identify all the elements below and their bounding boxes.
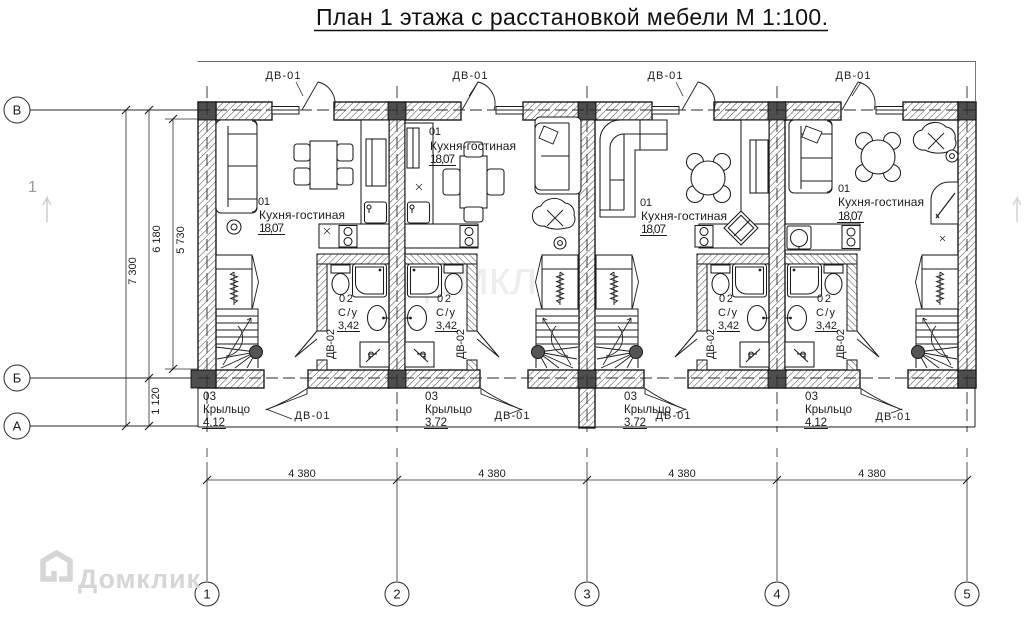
svg-text:03: 03 <box>425 391 438 403</box>
column grid5/Б <box>958 370 976 388</box>
ticks on axis Б <box>145 374 153 382</box>
grid 5 dashed centre line <box>966 86 968 432</box>
top wall unit2 segment b <box>523 102 579 120</box>
ticks on 4380 row <box>203 476 971 484</box>
door unit1 leader <box>266 409 292 419</box>
dim line 7300 <box>125 110 127 426</box>
svg-text:ДВ-01: ДВ-01 <box>648 70 683 82</box>
svg-text:3,42: 3,42 <box>436 320 457 332</box>
unit2 counter x-mark <box>416 184 422 190</box>
porch right edge <box>974 388 976 427</box>
door unit4 leader <box>891 409 902 413</box>
unit4 sofa <box>789 120 832 193</box>
door unit2 top: leaf and swing arc <box>462 82 495 110</box>
svg-text:1: 1 <box>203 587 210 602</box>
column grid4/В <box>768 102 786 120</box>
grid stems to bubbles <box>206 462 208 581</box>
window unit4 <box>876 107 903 115</box>
unit4 armchair side table <box>946 150 958 162</box>
unit4 armchair <box>913 122 956 153</box>
unit1 fridge <box>366 139 386 186</box>
column grid1/Б <box>191 370 216 388</box>
extension line bottom 5730 <box>165 368 198 370</box>
svg-text:5: 5 <box>963 587 970 602</box>
column grid3/В <box>578 102 596 120</box>
svg-text:1: 1 <box>28 179 37 196</box>
bottom wall unit3 segment a <box>595 370 644 388</box>
unit4 standing mirror <box>931 182 958 224</box>
unit2 chairs <box>464 142 483 157</box>
top wall unit2 segment a <box>405 102 461 120</box>
svg-text:02: 02 <box>719 293 733 305</box>
svg-text:03: 03 <box>203 391 216 403</box>
svg-text:ДВ-01: ДВ-01 <box>295 410 330 422</box>
unit1 kitchen base counter <box>319 224 389 248</box>
svg-text:4 380: 4 380 <box>288 468 316 480</box>
svg-text:3,72: 3,72 <box>624 417 646 429</box>
svg-text:3,42: 3,42 <box>816 320 837 332</box>
window unit2 <box>496 107 523 115</box>
svg-text:А: А <box>13 419 22 434</box>
unit2 fridge <box>407 128 419 168</box>
dim line 4380 row <box>207 479 967 481</box>
column grid5/В <box>958 102 976 120</box>
unit1 dining table <box>310 141 337 189</box>
bottom wall unit4 segment a <box>785 370 860 388</box>
svg-text:7 300: 7 300 <box>127 257 139 285</box>
svg-text:4,12: 4,12 <box>203 417 225 429</box>
door unit3 leader <box>676 409 686 413</box>
svg-text:01: 01 <box>640 197 652 209</box>
porch front edge <box>198 426 975 428</box>
unit4 round table <box>856 133 873 150</box>
unit 2 core (mirrored) <box>405 254 578 370</box>
porch left edge <box>197 388 199 427</box>
svg-text:4 380: 4 380 <box>668 468 696 480</box>
bottom wall unit4 segment b <box>908 370 958 388</box>
axis А leader line <box>30 425 198 427</box>
svg-text:Кухня-гостиная: Кухня-гостиная <box>641 209 727 223</box>
party wall grid 3 <box>579 102 595 388</box>
unit2 armchair <box>532 198 575 229</box>
door unit4 bottom leaf <box>861 389 903 411</box>
title underline <box>314 30 828 32</box>
svg-text:С/у: С/у <box>436 307 456 319</box>
unit1 kitchen sink <box>365 202 387 223</box>
svg-text:С/у: С/у <box>816 307 836 319</box>
unit4 small x-mark <box>940 236 945 241</box>
axis bubble 5 <box>955 582 979 606</box>
party wall grid 2 <box>389 102 405 388</box>
svg-text:01: 01 <box>258 196 270 208</box>
svg-text:18,07: 18,07 <box>430 152 455 166</box>
unit1 side table double circle <box>227 220 241 234</box>
column grid1/В <box>198 102 216 120</box>
grid short dashes above dim row <box>207 448 967 457</box>
svg-text:3,42: 3,42 <box>338 320 359 332</box>
svg-text:02: 02 <box>339 293 353 305</box>
svg-text:ДВ-02: ДВ-02 <box>325 329 337 359</box>
unit2 armchair side table <box>554 237 566 249</box>
top wall unit4 segment a <box>785 102 841 120</box>
porch party wall at grid 3 <box>579 388 595 428</box>
svg-text:1 120: 1 120 <box>150 387 162 415</box>
top wall unit1 segment a <box>216 102 272 120</box>
svg-text:ДВ-02: ДВ-02 <box>835 329 847 359</box>
column grid4/Б <box>768 370 786 388</box>
svg-text:4 380: 4 380 <box>858 468 886 480</box>
unit1 sofa <box>216 120 257 213</box>
svg-text:ДВ-01: ДВ-01 <box>495 410 530 422</box>
svg-text:С/у: С/у <box>718 307 738 319</box>
axis bubble 3 <box>575 582 599 606</box>
unit1 kitchen tall counter <box>361 120 389 224</box>
bottom wall unit2 segment a <box>405 370 480 388</box>
unit 4 core (mirrored) <box>785 254 958 370</box>
extension line top 5730 <box>165 118 198 120</box>
door unit1 top: leaf and swing arc <box>302 82 335 110</box>
svg-text:В: В <box>13 103 22 118</box>
bottom wall unit3 segment b <box>688 370 769 388</box>
grid 3 dashed centre line <box>586 86 588 432</box>
svg-text:Кухня-гостиная: Кухня-гостиная <box>430 139 516 153</box>
svg-text:3,72: 3,72 <box>425 417 447 429</box>
axis bubble А <box>4 413 30 439</box>
axis bubble 2 <box>385 582 409 606</box>
svg-text:03: 03 <box>805 391 818 403</box>
door unit4 top: leaf and swing arc <box>842 82 875 110</box>
unit3 corner sink tap line <box>734 220 750 236</box>
svg-text:ДВ-02: ДВ-02 <box>705 329 717 359</box>
unit4 kitchen base counter <box>785 224 860 250</box>
axis В dashed centre line <box>198 109 976 111</box>
svg-text:3,42: 3,42 <box>718 320 739 332</box>
svg-text:Крыльцо: Крыльцо <box>805 404 852 416</box>
unit 3 core <box>596 254 769 370</box>
watermark house icon <box>43 553 70 579</box>
unit3 corner sink rotated <box>724 211 758 245</box>
svg-text:03: 03 <box>624 391 637 403</box>
left exterior wall <box>198 102 216 388</box>
window unit3 <box>652 107 679 115</box>
unit2 sofa <box>535 117 581 194</box>
column grid2/Б <box>388 370 406 388</box>
svg-text:ДВ-01: ДВ-01 <box>453 70 488 82</box>
window unit1 <box>272 107 299 115</box>
top wall unit3 segment a <box>595 102 652 120</box>
svg-text:18,07: 18,07 <box>838 209 863 223</box>
right exterior wall <box>958 102 976 388</box>
faint right arrow mark <box>1013 198 1021 222</box>
svg-text:2: 2 <box>393 587 400 602</box>
grid 1 dashed centre line <box>206 86 208 432</box>
svg-text:Кухня-гостиная: Кухня-гостиная <box>259 208 345 222</box>
svg-text:4: 4 <box>773 587 780 602</box>
unit3 fridge <box>750 140 768 193</box>
axis bubble 4 <box>765 582 789 606</box>
bottom wall unit1 segment a <box>216 370 264 388</box>
door unit2 bottom leaf <box>481 389 523 411</box>
dim line 6180 / 1120 <box>148 110 150 426</box>
unit3 stove <box>695 226 713 248</box>
svg-text:Кухня-гостиная: Кухня-гостиная <box>838 195 924 209</box>
door unit3 top: leaf and swing arc <box>682 82 715 110</box>
top wall unit1 segment b <box>334 102 389 120</box>
party wall grid 4 <box>769 102 785 388</box>
svg-text:С/у: С/у <box>338 307 358 319</box>
door unit2 leader <box>509 409 522 414</box>
svg-text:План 1 этажа с расстановкой ме: План 1 этажа с расстановкой мебели М 1:1… <box>316 4 828 30</box>
bottom wall unit1 segment b <box>308 370 389 388</box>
svg-text:Крыльцо: Крыльцо <box>425 404 472 416</box>
ticks on 5730 <box>169 115 177 373</box>
svg-text:4 380: 4 380 <box>478 468 506 480</box>
unit2 kitchen tall counter <box>405 123 433 224</box>
top wall unit3 segment b <box>714 102 769 120</box>
axis bubble В <box>4 97 30 123</box>
grid 2 dashed centre line <box>396 86 398 432</box>
svg-text:ДВ-01: ДВ-01 <box>266 70 301 82</box>
unit2 stove <box>460 226 478 248</box>
column grid2/В <box>388 102 406 120</box>
axis Б leader line <box>30 377 198 379</box>
ticks on axis В <box>122 106 153 114</box>
svg-text:ДВ-01: ДВ-01 <box>656 410 691 422</box>
axis Б dashed centre line <box>198 377 976 379</box>
svg-text:ДВ-01: ДВ-01 <box>876 411 911 423</box>
unit3 kitchen base counter <box>699 224 769 248</box>
axis bubble Б <box>4 365 30 391</box>
unit4 stove <box>842 226 860 249</box>
svg-text:Крыльцо: Крыльцо <box>203 404 250 416</box>
unit2 kitchen base counter <box>405 224 478 248</box>
unit1 area underline <box>258 234 285 236</box>
unit1 counter x-mark <box>324 228 330 234</box>
unit3 kitchen tall counter <box>741 120 769 224</box>
top wall unit4 segment b <box>903 102 958 120</box>
svg-text:3: 3 <box>583 587 590 602</box>
svg-text:18,07: 18,07 <box>641 222 666 236</box>
svg-text:01: 01 <box>429 126 441 138</box>
unit4 round sink <box>787 226 811 249</box>
svg-text:02: 02 <box>817 293 831 305</box>
ticks on axis А <box>122 422 153 430</box>
svg-text:ДВ-01: ДВ-01 <box>836 70 871 82</box>
svg-text:ДВ-02: ДВ-02 <box>455 329 467 359</box>
dim line 5730 <box>172 119 174 369</box>
unit1 stove <box>339 226 357 248</box>
svg-text:18,07: 18,07 <box>259 221 284 235</box>
svg-text:02: 02 <box>437 293 451 305</box>
unit4 sofa pillow <box>802 126 822 143</box>
unit3 corner sofa <box>600 120 667 217</box>
grid 4 dashed centre line <box>776 86 778 432</box>
unit2 dining table <box>460 156 487 208</box>
bottom wall unit2 segment b <box>528 370 579 388</box>
axis bubble 1 <box>195 582 219 606</box>
svg-text:6 180: 6 180 <box>151 225 163 253</box>
door unit1 bottom leaf <box>266 389 308 411</box>
svg-text:4,12: 4,12 <box>805 417 827 429</box>
unit2 sofa pillow <box>539 126 558 144</box>
svg-text:01: 01 <box>838 183 850 195</box>
svg-text:Домклик: Домклик <box>78 564 200 594</box>
axis В leader line <box>30 109 198 111</box>
unit1 chairs <box>294 144 310 161</box>
door unit3 bottom leaf <box>645 389 687 411</box>
top-right boundary line <box>198 62 976 103</box>
unit2 kitchen sink <box>408 202 430 223</box>
svg-text:Б: Б <box>13 371 22 386</box>
top door label leaders <box>296 82 861 96</box>
unit3 round table <box>687 154 704 171</box>
svg-text:5 730: 5 730 <box>175 226 187 254</box>
unit 1 core <box>216 254 389 370</box>
column grid3/Б <box>578 370 596 388</box>
